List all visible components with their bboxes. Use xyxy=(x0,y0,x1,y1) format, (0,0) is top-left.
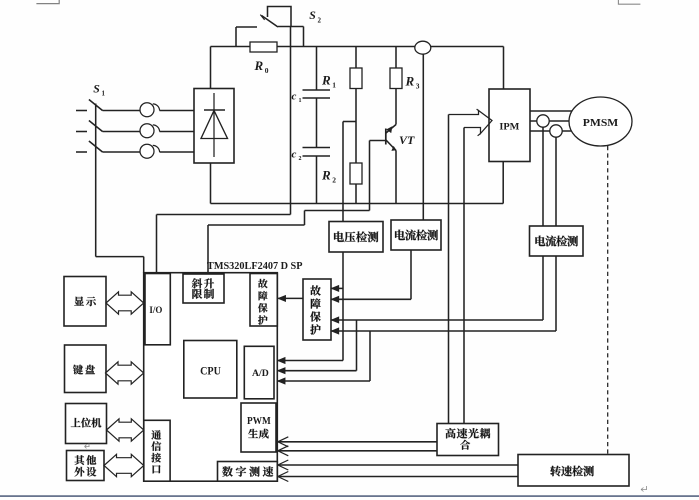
svg-text:2: 2 xyxy=(332,176,336,185)
svg-text:R: R xyxy=(321,168,331,183)
svg-text:IPM: IPM xyxy=(499,121,519,132)
svg-text:S: S xyxy=(309,8,316,22)
svg-text:c: c xyxy=(292,91,297,103)
svg-text:S: S xyxy=(93,82,100,96)
svg-text:0: 0 xyxy=(265,66,269,75)
svg-text:PWM: PWM xyxy=(247,416,271,427)
svg-text:2: 2 xyxy=(318,16,322,24)
svg-text:R: R xyxy=(405,74,415,89)
svg-text:1: 1 xyxy=(299,98,302,104)
svg-text:A/D: A/D xyxy=(252,368,269,379)
svg-text:PMSM: PMSM xyxy=(583,118,619,129)
svg-text:I/O: I/O xyxy=(149,306,162,316)
svg-text:c: c xyxy=(292,149,297,161)
svg-text:R: R xyxy=(321,73,331,88)
svg-text:TMS320LF2407 D SP: TMS320LF2407 D SP xyxy=(207,260,303,272)
svg-text:VT: VT xyxy=(399,133,415,147)
svg-text:R: R xyxy=(254,58,264,73)
svg-text:1: 1 xyxy=(332,81,336,90)
svg-text:1: 1 xyxy=(102,90,106,98)
svg-text:CPU: CPU xyxy=(200,364,221,378)
svg-text:2: 2 xyxy=(299,156,302,162)
svg-text:3: 3 xyxy=(416,82,420,91)
